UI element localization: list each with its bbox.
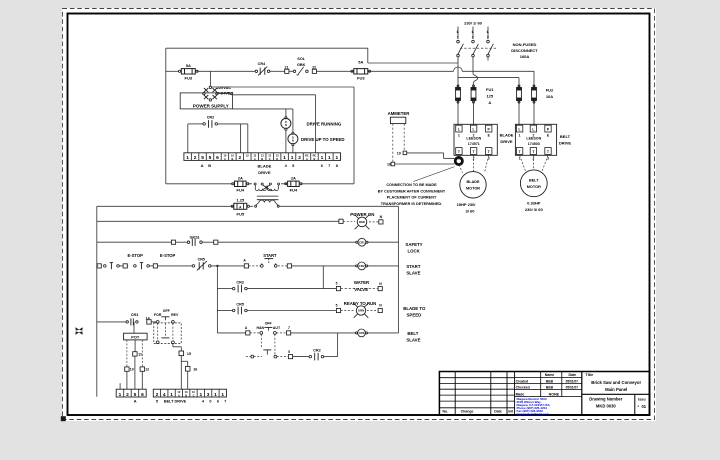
svg-text:1: 1 xyxy=(457,35,459,39)
wire coil CR1 to rail xyxy=(367,241,398,243)
svg-text:GBK: GBK xyxy=(297,63,306,67)
svg-text:FU3: FU3 xyxy=(357,76,365,81)
svg-text:7: 7 xyxy=(288,326,290,330)
selector S3 internal drops (dashed) xyxy=(157,323,159,341)
svg-text:DRIVE: DRIVE xyxy=(559,140,572,145)
pushbutton E-STOP 1 xyxy=(104,265,107,268)
wire rung 3 to coil xyxy=(292,265,357,267)
wire rung 5 xyxy=(247,310,336,312)
terminal rung 3 b xyxy=(119,265,123,267)
svg-text:1: 1 xyxy=(283,155,286,161)
disconnect switch pole L2 xyxy=(472,40,475,43)
wire FU3a to CR4 xyxy=(197,70,255,72)
svg-text:5: 5 xyxy=(134,392,137,398)
pushbutton E-STOP 2 xyxy=(126,265,129,267)
svg-text:3: 3 xyxy=(487,35,489,39)
wire blade motor leads (dashed) xyxy=(459,165,463,173)
wire 24V secondary rail xyxy=(97,205,233,207)
wire selector drops (dashed) xyxy=(260,334,262,348)
svg-text:B: B xyxy=(185,394,187,398)
terminal rung 2 b xyxy=(202,241,213,243)
svg-text:N: N xyxy=(285,124,287,127)
svg-text:A: A xyxy=(306,157,308,161)
svg-text:B: B xyxy=(261,157,263,161)
motor M2 BELT MOTOR xyxy=(520,170,547,197)
svg-text:Created: Created xyxy=(516,379,529,383)
wire to valve (dashed) xyxy=(341,288,378,290)
svg-text:10A: 10A xyxy=(546,94,553,99)
svg-text:BELT: BELT xyxy=(407,331,418,336)
svg-text:230/ 3/ 60: 230/ 3/ 60 xyxy=(525,207,544,212)
svg-text:SLAVE: SLAVE xyxy=(406,337,420,342)
svg-text:160A: 160A xyxy=(520,54,530,59)
svg-text:5A: 5A xyxy=(186,63,191,68)
wire rung 6 left xyxy=(217,332,245,334)
motor M1 BLADE MOTOR xyxy=(460,172,486,198)
wire CR2 right to terminals 2/12 xyxy=(218,123,248,125)
wire riser lamp PL1 xyxy=(285,109,287,117)
svg-text:2: 2 xyxy=(239,155,242,161)
wire 15 down xyxy=(180,356,182,390)
wire lamp PL2 to terminal 15 xyxy=(292,146,294,153)
svg-text:REV: REV xyxy=(171,313,179,317)
svg-text:6: 6 xyxy=(217,400,219,404)
svg-text:DISCONNECT: DISCONNECT xyxy=(511,48,538,53)
svg-text:CR2: CR2 xyxy=(236,280,244,284)
svg-text:OFF: OFF xyxy=(163,309,171,313)
svg-text:FU3: FU3 xyxy=(185,76,193,81)
title block outer frame xyxy=(439,372,649,415)
svg-text:1: 1 xyxy=(186,155,189,161)
wire ammeter leads (dashed) xyxy=(392,124,394,162)
svg-text:Change: Change xyxy=(461,410,474,414)
selector switch S2 xyxy=(250,332,260,334)
terminal 10 xyxy=(125,367,129,371)
svg-text:FU5: FU5 xyxy=(237,211,245,216)
indicator lamp PL4 GRN xyxy=(354,303,369,318)
svg-text:5: 5 xyxy=(288,350,290,354)
svg-text:Name: Name xyxy=(545,373,555,377)
wire jog to 16 xyxy=(181,360,187,362)
terminal strip TB1 blade drive xyxy=(184,153,341,161)
wire 21 to solenoid xyxy=(289,70,293,72)
wire 16 down xyxy=(187,371,189,389)
wire coil CR2 to rail xyxy=(367,265,398,267)
svg-text:MOTOR: MOTOR xyxy=(466,187,480,191)
svg-text:B: B xyxy=(314,157,316,161)
svg-text:DRIVE: DRIVE xyxy=(258,170,271,175)
svg-text:1: 1 xyxy=(170,392,173,398)
wire ladder left rail xyxy=(96,206,98,396)
wire FU4b to 220VAC bus xyxy=(301,183,354,185)
wire CR2 left to terminal 1 xyxy=(188,123,203,125)
wire FU4a to T1 xyxy=(248,183,252,185)
svg-text:AUT: AUT xyxy=(273,326,281,330)
fuse FU2a xyxy=(517,88,522,101)
svg-text:DRIVE UP TO SPEED: DRIVE UP TO SPEED xyxy=(301,137,345,142)
svg-text:N: N xyxy=(380,215,383,219)
revision table xyxy=(439,377,514,379)
wire FU2b to belt drive L2 xyxy=(533,101,535,125)
svg-text:0.33HP: 0.33HP xyxy=(527,201,541,206)
terminal rung 3 a xyxy=(97,264,101,268)
fuse FU1b xyxy=(471,88,476,101)
svg-text:1: 1 xyxy=(321,155,324,161)
svg-text:A: A xyxy=(201,163,204,168)
wire blade T1 to CT xyxy=(458,155,460,157)
svg-text:BLADE: BLADE xyxy=(258,163,272,168)
orientation mark xyxy=(75,327,83,335)
svg-text:11: 11 xyxy=(138,352,142,356)
fuse FU2b xyxy=(532,88,537,101)
svg-text:POWER ON: POWER ON xyxy=(350,212,374,217)
svg-text:A: A xyxy=(224,157,226,161)
svg-text:No.: No. xyxy=(442,410,448,414)
wire rail to terminal strip xyxy=(119,383,121,389)
svg-text:START: START xyxy=(406,264,421,269)
svg-text:6: 6 xyxy=(141,392,144,398)
svg-text:5A: 5A xyxy=(358,59,363,64)
svg-text:FU1: FU1 xyxy=(486,87,494,92)
svg-text:0: 0 xyxy=(209,400,211,404)
svg-text:START: START xyxy=(263,253,277,258)
transformer T1 xyxy=(254,183,256,185)
svg-text:5: 5 xyxy=(209,155,212,161)
svg-text:BLADE TO: BLADE TO xyxy=(403,306,426,311)
svg-text:16: 16 xyxy=(193,367,197,371)
svg-text:Date: Date xyxy=(494,410,502,414)
wire stub to fuse FU3a xyxy=(166,70,179,72)
svg-text:1: 1 xyxy=(335,155,338,161)
svg-text:1: 1 xyxy=(519,134,521,138)
wire T2 to right rail xyxy=(279,205,398,207)
svg-text:GRN: GRN xyxy=(358,309,364,313)
wire rung 6 to coil xyxy=(291,332,356,334)
indicator lamp PL1 drive running xyxy=(285,117,287,119)
indicator lamp PL2 drive up to speed xyxy=(292,132,294,134)
wire selector to 15 xyxy=(172,344,174,347)
terminal rung 3 c xyxy=(149,265,153,267)
svg-text:125: 125 xyxy=(486,94,493,99)
wire control bus from L1 (top route) xyxy=(166,47,368,49)
wire branch 2 vertical xyxy=(322,266,324,289)
svg-text:174503: 174503 xyxy=(528,142,540,146)
terminal 16 xyxy=(185,367,190,372)
wire 10 down xyxy=(126,371,128,389)
wire drop to POT xyxy=(133,322,135,333)
pushbutton START xyxy=(260,265,263,268)
svg-text:BEB: BEB xyxy=(546,385,554,389)
svg-text:7: 7 xyxy=(224,400,226,404)
wire lamp PL3 to N (dashed) xyxy=(369,221,379,223)
svg-text:MOTOR: MOTOR xyxy=(527,185,541,189)
svg-text:2A: 2A xyxy=(291,175,296,180)
svg-text:2: 2 xyxy=(298,155,301,161)
svg-text:19: 19 xyxy=(397,151,401,155)
svg-text:Title: Title xyxy=(586,373,594,377)
svg-text:E-STOP: E-STOP xyxy=(128,253,144,258)
wire (dashed) xyxy=(341,310,356,312)
svg-text:NONE: NONE xyxy=(549,393,560,397)
svg-text:CR2: CR2 xyxy=(313,348,321,352)
selector S3 lower contacts xyxy=(156,341,159,344)
wire L3 stub xyxy=(487,27,489,39)
wire T1 to FU4b xyxy=(281,183,287,185)
transformer T2 xyxy=(255,205,257,207)
svg-text:CR3: CR3 xyxy=(359,331,365,335)
terminal rung 3 d xyxy=(287,264,291,268)
svg-text:15HP 230/: 15HP 230/ xyxy=(457,202,477,207)
svg-text:LEESON: LEESON xyxy=(466,137,481,141)
svg-text:BEB: BEB xyxy=(546,379,554,383)
wire FU2a to belt drive L1 xyxy=(518,101,520,125)
svg-text:DRIVE RUNNING: DRIVE RUNNING xyxy=(307,121,342,126)
wire 14 to selector xyxy=(151,321,156,323)
terminal strip TB3 belt drive xyxy=(153,389,226,397)
svg-text:A: A xyxy=(134,398,137,403)
svg-text:CR1: CR1 xyxy=(359,241,365,245)
svg-text:CR5: CR5 xyxy=(236,302,244,306)
wire rung 2 left xyxy=(97,241,172,243)
transformer X1 power supply 220VAC-24VDC xyxy=(209,86,211,88)
wire 19 to CT xyxy=(407,152,444,154)
svg-text:7: 7 xyxy=(328,163,330,168)
wire rung 5 left xyxy=(217,310,232,312)
power supply box xyxy=(180,93,232,109)
svg-text:01: 01 xyxy=(642,404,647,409)
relay coil CR3 xyxy=(358,329,366,337)
wire 220V control branch xyxy=(166,183,233,185)
wire rung 2 to coil xyxy=(218,241,357,243)
svg-text:A: A xyxy=(178,394,180,398)
svg-text:CR2: CR2 xyxy=(359,264,365,268)
svg-text:1: 1 xyxy=(214,392,217,398)
wire xyxy=(293,356,309,358)
wire rung 3 start xyxy=(97,265,98,267)
svg-text:FU4: FU4 xyxy=(290,188,298,193)
fuse FU1a xyxy=(456,88,461,101)
wire FU5 to T2 xyxy=(250,205,254,207)
terminal rung 2 a xyxy=(171,240,175,244)
indicator lamp PL3 RED xyxy=(355,215,370,230)
svg-text:BLADE: BLADE xyxy=(500,132,514,137)
svg-text:NON-FUSED: NON-FUSED xyxy=(513,42,537,47)
wire to lamp PL3 (dashed) xyxy=(343,220,355,222)
wire (dashed) xyxy=(276,332,286,334)
wire (dashed) xyxy=(278,265,287,267)
svg-text:Issu: Issu xyxy=(638,397,646,401)
svg-text:CR4: CR4 xyxy=(258,62,266,66)
wire 12 down xyxy=(141,371,143,389)
wire rung 7 riser xyxy=(324,356,338,358)
svg-text:CR2: CR2 xyxy=(207,116,215,120)
svg-text:2: 2 xyxy=(126,392,129,398)
wire FU1b to blade drive L2 xyxy=(473,101,475,125)
wire coil CR3 to rail xyxy=(367,332,399,334)
svg-text:N: N xyxy=(292,140,294,143)
svg-text:SAFETY: SAFETY xyxy=(405,242,422,247)
current transformer CT1 donut xyxy=(455,157,462,164)
svg-text:A: A xyxy=(488,100,491,105)
wire (dashed) xyxy=(249,265,261,267)
svg-text:Date: Date xyxy=(569,373,577,377)
svg-text:3/ 60: 3/ 60 xyxy=(466,208,476,213)
wire ladder right rail xyxy=(397,206,399,333)
wire riser lamp PL2 xyxy=(292,109,294,133)
wire L2 to fuse FU1b xyxy=(472,57,474,73)
svg-text:MKD 0030: MKD 0030 xyxy=(596,403,616,408)
wire A control feed to L1 xyxy=(368,62,458,64)
svg-text:A: A xyxy=(254,157,256,161)
svg-text:BLADE: BLADE xyxy=(466,180,480,184)
svg-text:OFF: OFF xyxy=(265,322,273,326)
svg-text:B: B xyxy=(208,163,211,168)
svg-text:1: 1 xyxy=(199,392,202,398)
svg-text:174571: 174571 xyxy=(468,142,480,146)
wire 24VDC out xyxy=(217,94,316,95)
svg-text:4: 4 xyxy=(163,392,166,398)
wire rung 4 xyxy=(247,288,336,290)
svg-text:12: 12 xyxy=(145,368,149,372)
svg-text:5: 5 xyxy=(336,282,338,286)
terminal strip TB2 xyxy=(116,389,146,397)
svg-text:5: 5 xyxy=(336,304,338,308)
svg-text:2: 2 xyxy=(194,155,197,161)
disconnect gang tie (dashed) xyxy=(460,47,496,49)
svg-text:SOL: SOL xyxy=(297,57,305,61)
relay coil CR2 xyxy=(358,262,366,270)
svg-text:FOR: FOR xyxy=(154,313,162,317)
terminal 15 xyxy=(179,351,184,356)
svg-text:C: C xyxy=(269,157,271,161)
VFD U2 LEESON 174503 belt drive xyxy=(515,124,556,155)
terminal on rung 1 xyxy=(339,219,343,223)
potentiometer POT xyxy=(124,333,148,340)
selector switch S3 xyxy=(156,321,159,324)
svg-text:Checked: Checked xyxy=(516,385,530,389)
svg-text:LEESON: LEESON xyxy=(526,137,541,141)
wire (dashed) xyxy=(277,356,289,358)
svg-text:2A: 2A xyxy=(238,175,243,180)
svg-text:BY CUSTOMER AFTER CONVENIENT: BY CUSTOMER AFTER CONVENIENT xyxy=(378,190,446,194)
VFD U1 LEESON 174571 blade drive xyxy=(454,124,497,155)
wire 11 down xyxy=(134,356,136,389)
wire rung 1 xyxy=(97,220,339,222)
wire rung CR3 bottom xyxy=(97,321,126,323)
svg-text:05/01/07: 05/01/07 xyxy=(566,385,579,389)
approval table lines xyxy=(515,376,582,378)
svg-text:RED: RED xyxy=(359,220,365,224)
leader line to CT note xyxy=(414,167,455,182)
svg-text:1: 1 xyxy=(291,155,294,161)
svg-text:LOCK: LOCK xyxy=(407,248,420,253)
selector S3 cage (dashed box) xyxy=(154,323,181,344)
svg-text:1: 1 xyxy=(458,134,460,138)
wire POT ends (dashed) xyxy=(126,340,128,367)
svg-text:6: 6 xyxy=(216,155,219,161)
disconnect switch pole L1 xyxy=(457,40,460,43)
svg-text:POWER SUPPLY: POWER SUPPLY xyxy=(193,103,229,108)
svg-text:Main Panel: Main Panel xyxy=(605,387,627,392)
wire L3 stub below switch xyxy=(487,57,489,61)
svg-text:1: 1 xyxy=(328,155,331,161)
svg-text:FU4: FU4 xyxy=(237,188,245,193)
wire L1 to fuse FU1a xyxy=(457,57,459,87)
svg-text:C: C xyxy=(193,394,195,398)
svg-text:SPEED: SPEED xyxy=(407,312,422,317)
wire rung 4 left xyxy=(217,288,232,290)
wire CR4 to 21 xyxy=(270,70,285,72)
svg-text:DRIVE: DRIVE xyxy=(500,139,513,144)
svg-text:Brick Saw and Conveyor: Brick Saw and Conveyor xyxy=(591,380,641,385)
svg-text:BELT DRIVE: BELT DRIVE xyxy=(164,400,187,404)
svg-text:05/01/07: 05/01/07 xyxy=(566,379,579,383)
svg-text:230/ 1/ 60: 230/ 1/ 60 xyxy=(464,21,483,26)
svg-text:1.25: 1.25 xyxy=(236,197,245,202)
wire xyxy=(158,265,193,267)
label 24VDC with arrow xyxy=(216,92,220,94)
wire branch 1 vertical xyxy=(216,266,218,333)
disconnect switch pole L3 xyxy=(487,40,490,43)
wire xyxy=(176,241,187,243)
svg-text:220VAC: 220VAC xyxy=(217,85,232,90)
relay coil CR1 xyxy=(358,238,366,246)
svg-text:D: D xyxy=(276,157,278,161)
svg-text:Drawing Number: Drawing Number xyxy=(589,397,623,402)
wire L2 stub xyxy=(472,27,474,39)
svg-text:CR5: CR5 xyxy=(198,257,205,261)
wire FU1a to blade drive L1 xyxy=(457,101,459,125)
drawing number box xyxy=(582,393,650,395)
svg-text:B: B xyxy=(231,157,233,161)
svg-text:18: 18 xyxy=(387,163,391,167)
svg-text:10: 10 xyxy=(130,368,134,372)
svg-text:2: 2 xyxy=(472,35,474,39)
wire POT wiper xyxy=(134,340,136,352)
wire lamp PL1 to terminal 14 xyxy=(285,130,287,152)
svg-text:WATER: WATER xyxy=(354,280,370,285)
terminal 12 xyxy=(140,367,144,371)
svg-text:5: 5 xyxy=(201,155,204,161)
wire 220VAC bus xyxy=(212,86,354,88)
wire (dashed) xyxy=(367,310,378,312)
wire B control feed, hump over L1 xyxy=(367,70,453,72)
svg-text:CR3: CR3 xyxy=(131,313,138,317)
svg-text:1: 1 xyxy=(119,392,122,398)
wire belt motor leads (dashed) xyxy=(520,155,526,171)
svg-text:TRANSFORMER IS DETERMINED.: TRANSFORMER IS DETERMINED. xyxy=(381,202,442,206)
svg-text:Made: Made xyxy=(516,392,525,396)
selector S2 lower deck xyxy=(246,356,251,358)
svg-text:1: 1 xyxy=(221,392,224,398)
svg-text:AMMETER: AMMETER xyxy=(388,111,411,116)
svg-text:3: 3 xyxy=(207,392,210,398)
svg-text:15: 15 xyxy=(187,352,191,356)
svg-text:SLAVE: SLAVE xyxy=(406,270,420,275)
svg-text:E-STOP: E-STOP xyxy=(160,253,176,258)
svg-text:FU2: FU2 xyxy=(546,88,554,93)
node junction to power supply xyxy=(209,71,211,86)
svg-text:BELT: BELT xyxy=(529,179,539,183)
svg-text:BELT: BELT xyxy=(560,134,571,139)
svg-text:HAN: HAN xyxy=(257,326,265,330)
wire C from L1 to fuse FU2a xyxy=(458,77,519,79)
svg-text:CONNECTION TO BE MADE: CONNECTION TO BE MADE xyxy=(386,183,437,187)
wire 22 to FU3b xyxy=(317,70,354,72)
wire + junction branch 1 xyxy=(211,265,244,267)
svg-text:2: 2 xyxy=(156,392,159,398)
svg-text:VALVE: VALVE xyxy=(354,287,368,292)
